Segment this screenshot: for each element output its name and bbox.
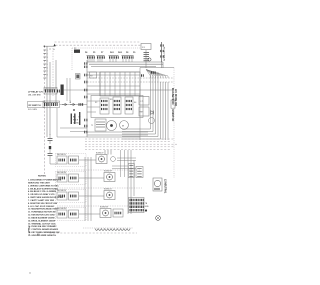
wire bund-128: [127, 150, 129, 214]
wire rowC-link: [79, 195, 104, 197]
wire rail-90: [87, 89, 174, 91]
wire row-dot-3: [57, 205, 142, 207]
wire bus-h3: [91, 65, 156, 67]
wire corner-jog: [45, 45, 55, 47]
svg-text:INF SW RF: INF SW RF: [57, 172, 67, 174]
svg-text:INF SW LF: INF SW LF: [57, 154, 67, 156]
svg-text:LF RELAY 12V: LF RELAY 12V: [28, 91, 43, 94]
wire row-outlines: [56, 154, 87, 221]
connector CN10: [129, 198, 145, 213]
svg-text:5. OR-ORG GY-GRAY V-VIO: 5. OR-ORG GY-GRAY V-VIO: [28, 193, 55, 196]
note legend-list: [28, 180, 63, 237]
wire rowB-link: [79, 177, 104, 179]
wire cabinet-top: [55, 41, 142, 43]
svg-text:K4: K4: [134, 102, 136, 104]
wire rowA-link: [79, 159, 96, 161]
svg-text:H.V. DIODE CR1: H.V. DIODE CR1: [174, 89, 176, 107]
wire bus-h2: [89, 63, 163, 65]
node L1-supply arrow: [53, 44, 55, 47]
wire rail-72: [87, 71, 140, 73]
wire sep-dash-1: [85, 138, 174, 140]
svg-text:10. MAGNETRON 2M246 700W: 10. MAGNETRON 2M246 700W: [28, 208, 58, 211]
element E2 row-B: [104, 173, 115, 182]
svg-text:19. GROUND WIRE GRN/YEL: 19. GROUND WIRE GRN/YEL: [28, 235, 57, 237]
svg-text:9. H.V. CAP .91UF 2100VAC: 9. H.V. CAP .91UF 2100VAC: [28, 205, 55, 208]
svg-text:2. WIRING CONFORMS TO NEC: 2. WIRING CONFORMS TO NEC: [28, 185, 59, 187]
wire rail-75: [87, 74, 140, 76]
wire main-bus: [86, 60, 88, 137]
motor M3: [153, 178, 162, 191]
wire mid-box-l: [99, 72, 101, 96]
node corner-dots: [44, 46, 45, 47]
motor M2: [120, 121, 129, 130]
wire inner-left: [52, 48, 54, 96]
wire bundle-fanout: [146, 70, 168, 79]
connector CN3: [109, 56, 119, 58]
svg-text:6. SWITCHES SHOWN DOOR OPEN: 6. SWITCHES SHOWN DOOR OPEN: [28, 197, 63, 199]
coil L2: [61, 85, 64, 96]
wire jog-67: [66, 78, 68, 101]
wire arrow-b: [70, 103, 75, 106]
svg-text:17. CONTROL BOARD 8184812: 17. CONTROL BOARD 8184812: [28, 228, 59, 231]
wire border-ticks: [43, 50, 47, 78]
wire riser-105: [104, 150, 106, 155]
wire row-dot-1: [57, 169, 140, 171]
wire conn-drops: [88, 59, 132, 62]
svg-text:L2 NEUTRAL: L2 NEUTRAL: [163, 179, 166, 194]
wire bus-relay-links: [87, 100, 100, 102]
svg-text:1. DISCONNECT POWER BEFORE: 1. DISCONNECT POWER BEFORE: [28, 180, 62, 182]
svg-text:3. BK-BLACK W-WHITE R-RED: 3. BK-BLACK W-WHITE R-RED: [28, 187, 58, 190]
connector CN5: [84, 74, 87, 77]
lamp DS2: [156, 216, 161, 221]
wire inner-top: [72, 47, 140, 49]
relay K8: [76, 74, 81, 80]
svg-text:N.O. 240V: N.O. 240V: [28, 109, 38, 111]
svg-text:ELEM RR: ELEM RR: [100, 207, 109, 209]
wire mid-box-verts: [105, 72, 135, 96]
wire fuse-drop: [145, 50, 147, 68]
switch S1 door: [161, 42, 163, 62]
wire jog-70: [69, 78, 71, 101]
svg-text:W: W: [79, 117, 81, 119]
wire centre-links: [87, 131, 148, 133]
svg-text:GY BU: GY BU: [73, 123, 79, 125]
element E1b: [111, 157, 116, 162]
wire cabinet-bottom: [50, 232, 138, 234]
node speck: [29, 272, 30, 273]
wire bus-h1: [87, 61, 163, 63]
svg-text:15. THERMAL CUTOUT 150C: 15. THERMAL CUTOUT 150C: [28, 222, 56, 225]
svg-text:MONITOR: MONITOR: [171, 110, 174, 122]
svg-text:13. BAKE ELEMENT 2600W: 13. BAKE ELEMENT 2600W: [28, 216, 55, 219]
svg-text:NOTES:: NOTES:: [38, 176, 47, 178]
transformer T1: [95, 119, 106, 131]
wire sep-dash-4: [85, 146, 174, 148]
svg-text:4. BU-BLUE Y-YEL G-GREEN: 4. BU-BLUE Y-YEL G-GREEN: [28, 190, 57, 193]
svg-text:ELEM LF: ELEM LF: [96, 153, 104, 155]
capacitor C1: [139, 97, 149, 106]
thermal cutout TCO2: [144, 59, 150, 61]
wire riser-57: [56, 108, 58, 137]
svg-text:P2: P2: [90, 76, 92, 78]
wire row-dot-2: [57, 187, 142, 189]
svg-text:12. FAN MOTOR 120V 60HZ: 12. FAN MOTOR 120V 60HZ: [28, 214, 55, 217]
svg-text:P1: P1: [74, 48, 76, 50]
transformer T2 HVT: [139, 107, 149, 116]
node brace: [28, 227, 31, 233]
wire riser-91b: [90, 157, 92, 221]
relay K4: [125, 97, 133, 114]
thermal cutout TCO1: [144, 53, 150, 57]
wire harness-bundle: [122, 72, 168, 140]
svg-text:16. FUSE 20A 250V CERAMIC: 16. FUSE 20A 250V CERAMIC: [28, 225, 57, 228]
svg-text:ELEM LR: ELEM LR: [104, 189, 112, 191]
svg-text:K2: K2: [95, 102, 97, 104]
thermostat TH1: [148, 58, 151, 61]
wire mid-box: [100, 72, 140, 96]
svg-text:M: M: [122, 126, 124, 128]
wire bus-drop: [162, 62, 164, 68]
wire arrow-a: [62, 103, 67, 106]
wire rail-86: [87, 85, 140, 87]
svg-text:P11 R: P11 R: [73, 120, 79, 122]
wire riser-47: [46, 46, 48, 137]
wire ladder-wires: [117, 157, 136, 159]
ground braid: [95, 229, 130, 231]
connector CN1: [87, 56, 95, 58]
element E1 row-A: [96, 155, 107, 164]
wire riser-50: [49, 62, 51, 135]
svg-text:8. MONITOR SW CIRCUIT 20A: 8. MONITOR SW CIRCUIT 20A: [28, 202, 57, 205]
wire rail-94: [87, 93, 140, 95]
connector CN13: [79, 103, 84, 106]
svg-text:P7: P7: [101, 52, 103, 54]
svg-text:INF SW RR: INF SW RR: [57, 208, 67, 210]
motor M1: [107, 121, 117, 131]
wire sep-dash-5: [85, 148, 170, 150]
svg-text:P9: P9: [133, 52, 135, 54]
label switch-row: [28, 102, 45, 108]
node J1: [73, 109, 75, 111]
inductor L3: [71, 114, 72, 125]
connector CN11: [141, 74, 144, 76]
relay K1: [44, 88, 57, 95]
wire rowD-link: [79, 213, 100, 215]
wire sep-dash-2: [85, 141, 170, 143]
wire riser-111: [110, 150, 112, 155]
svg-text:11. TURNTABLE MOTOR 3W: 11. TURNTABLE MOTOR 3W: [28, 211, 56, 214]
connector CN14: [136, 167, 143, 178]
svg-text:18. KEY PANEL MEMBRANE SW: 18. KEY PANEL MEMBRANE SW: [28, 231, 59, 234]
svg-text:K3: K3: [110, 99, 112, 101]
svg-text:RF SWITCH: RF SWITCH: [29, 105, 42, 107]
capacitor C3: [48, 153, 53, 155]
relay K3: [113, 97, 121, 114]
wire rail-82: [87, 81, 174, 83]
wire riser-108: [107, 150, 109, 155]
terminal TB1: [128, 164, 134, 178]
connector CN15: [84, 62, 87, 64]
wire riser-88b: [87, 157, 89, 221]
svg-text:INF SW LR: INF SW LR: [57, 190, 67, 192]
svg-text:DBL LINE BRK: DBL LINE BRK: [28, 94, 41, 96]
contact K1a: [57, 90, 62, 93]
diode D1: [151, 111, 154, 115]
connector CN4: [122, 56, 134, 58]
wire ladder-verts: [120, 150, 122, 177]
svg-text:P5: P5: [93, 52, 95, 54]
svg-text:DU1: DU1: [110, 52, 114, 54]
element E4 row-D: [100, 209, 111, 218]
element E5 row-D: [113, 209, 123, 217]
capacitor C2: [48, 138, 53, 140]
svg-text:14. BROIL ELEMENT 3400W: 14. BROIL ELEMENT 3400W: [28, 219, 55, 222]
fuse F1: [141, 44, 151, 50]
wire left-links: [60, 127, 87, 129]
svg-text:SERVICING THIS UNIT: SERVICING THIS UNIT: [28, 182, 51, 184]
svg-text:INTERLOCK SW: INTERLOCK SW: [164, 46, 166, 61]
connector P1: [74, 50, 80, 53]
wire console-top: [56, 44, 142, 46]
wire right-box: [140, 67, 174, 69]
svg-text:P8: P8: [126, 52, 128, 54]
wire door-drop: [161, 62, 163, 68]
relay K9: [90, 72, 97, 78]
wire riser-85b: [84, 157, 86, 221]
motor M4 fan: [149, 118, 155, 124]
wire sep-dash-3: [85, 143, 178, 145]
svg-text:T1: T1: [91, 125, 93, 127]
svg-text:C.T.: C.T.: [140, 101, 144, 103]
wire riser-56: [55, 60, 57, 103]
wire cabinet-left: [44, 46, 46, 176]
connector CN2: [97, 56, 105, 58]
wire bund-134: [133, 160, 135, 196]
switch S2: [43, 101, 60, 108]
svg-text:DU2: DU2: [118, 52, 122, 54]
element E3 row-C: [104, 191, 115, 200]
control board U1: [91, 96, 143, 118]
wire rail-78: [87, 77, 174, 79]
relay K7: [171, 100, 175, 108]
wire bund-131: [130, 150, 132, 214]
node N2: [145, 209, 147, 211]
relay K2: [100, 98, 109, 114]
wire row2-bus: [60, 104, 88, 106]
wire inner-vert: [71, 48, 73, 70]
svg-text:ELEM RF: ELEM RF: [104, 171, 113, 173]
svg-text:7. CAVITY LAMP 125V 25W: 7. CAVITY LAMP 125V 25W: [28, 199, 54, 202]
wire row1-bus: [64, 89, 88, 91]
